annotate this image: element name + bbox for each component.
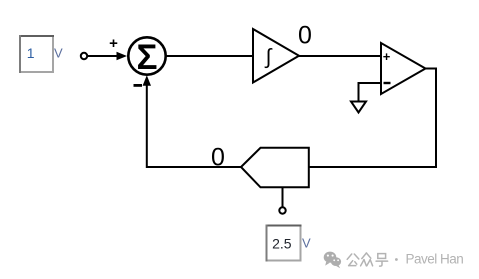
watermark logo [324, 252, 341, 269]
wire comparator minus input to ground [359, 83, 382, 101]
watermark hanzi gong [347, 254, 359, 266]
watermark hanzi zhong [361, 253, 373, 266]
svg-text:+: + [383, 49, 391, 64]
svg-text:+: + [109, 35, 118, 52]
integrator U2 [253, 29, 299, 83]
comparator U3 [381, 43, 426, 94]
svg-text:Σ: Σ [136, 38, 157, 77]
watermark hanzi hao [376, 254, 388, 267]
wire DAC output to summer minus input [143, 75, 241, 167]
wire input to summer [88, 52, 128, 60]
svg-text:1: 1 [27, 45, 35, 61]
voltage source box V1 [19, 35, 54, 73]
watermark separator dot [395, 258, 398, 261]
svg-text:V: V [54, 46, 63, 61]
summer U1 (sigma junction) [128, 37, 165, 77]
voltage source box V2 [266, 225, 302, 262]
node input terminal [81, 53, 87, 59]
node reference terminal [279, 207, 285, 213]
svg-text:0: 0 [298, 22, 312, 50]
wire DAC reference stub [282, 187, 284, 207]
wire comparator output to DAC [309, 69, 436, 168]
svg-text:Pavel Han: Pavel Han [406, 252, 464, 267]
svg-text:V: V [302, 235, 311, 250]
DAC U4 (1-bit mux) [241, 148, 309, 188]
ground [351, 102, 366, 113]
minus sign label [134, 84, 143, 87]
svg-text:2.5: 2.5 [272, 235, 292, 251]
wire summer to integrator [166, 55, 253, 57]
wire integrator to comparator [299, 55, 381, 57]
